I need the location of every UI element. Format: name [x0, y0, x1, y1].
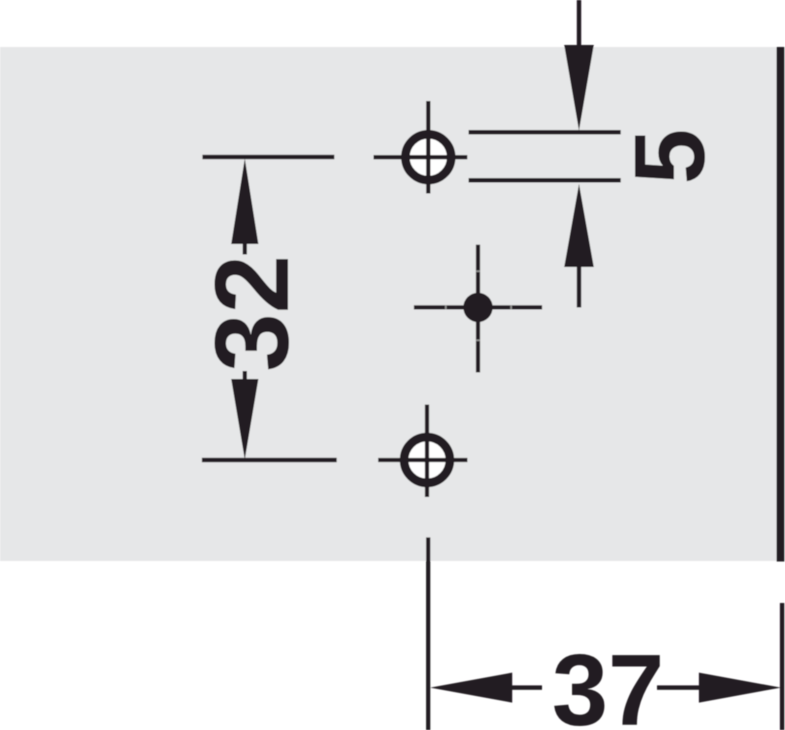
hole top: white bore [405, 134, 451, 180]
dimension 37: right extension line [780, 603, 784, 730]
svg-text:5: 5 [614, 129, 726, 185]
hole bottom: ring [404, 437, 450, 483]
screw position: vertical centerline [476, 245, 480, 373]
dimension 37: left line segment [511, 685, 542, 689]
dimension 5: upper leader line from top [577, 0, 581, 46]
panel front edge (thick black bar, right) [777, 47, 785, 562]
panel (gray board face) [0, 47, 785, 561]
dimension 37: left arrowhead [430, 673, 512, 703]
hole top: ring [405, 134, 451, 180]
dimension 5: upper extension line [469, 130, 621, 134]
dimension 32: top tick line [202, 155, 334, 159]
dimension 32: down arrowhead [231, 379, 258, 460]
dimension 37: right line segment [657, 685, 702, 689]
dimension 37: left extension line [426, 537, 430, 730]
hole bottom: horizontal centerline [378, 458, 467, 462]
dimension 32: bottom tick line [202, 458, 337, 462]
dimension 37: right arrowhead [699, 673, 781, 703]
dimension 5: up arrowhead [564, 184, 594, 267]
hole top: horizontal centerline [374, 155, 468, 159]
dimension 32: lower stub line [243, 371, 247, 379]
hole bottom: vertical centerline [425, 405, 429, 497]
svg-text:32: 32 [194, 255, 311, 372]
svg-text:37: 37 [552, 635, 664, 730]
hole bottom: white bore [404, 437, 450, 483]
screw position: horizontal centerline [414, 305, 542, 309]
hole top: vertical centerline [426, 101, 430, 194]
screw position: filled dot [463, 293, 492, 322]
dimension 5: down arrowhead [564, 45, 594, 131]
dimension 5: lower leader line [577, 267, 581, 308]
dimension 32: up arrowhead [231, 159, 258, 245]
dimension 32: upper stub line [243, 244, 247, 255]
dimension 5: lower extension line [469, 178, 621, 182]
